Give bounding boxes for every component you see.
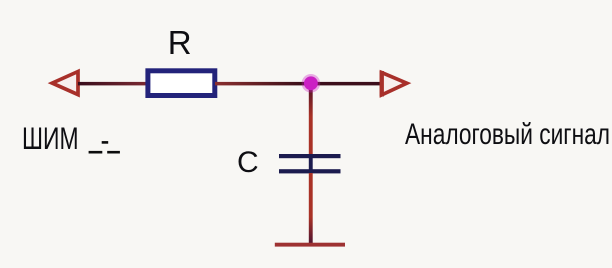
PWM square-wave glyph <box>89 141 120 153</box>
label ШИМ <box>22 120 79 157</box>
wire: capacitor bottom plate to ground <box>309 173 313 244</box>
input arrow (left, open triangle) <box>52 72 78 95</box>
node (junction dot) <box>304 76 318 90</box>
wire: input arrow to resistor R <box>78 82 148 86</box>
label C <box>237 146 259 180</box>
capacitor C bottom plate <box>279 169 341 173</box>
wire: node down to capacitor top plate <box>309 86 313 154</box>
resistor R <box>148 71 215 96</box>
capacitor C top plate <box>279 154 341 158</box>
capacitor C gap wire <box>309 156 313 171</box>
node glow <box>302 74 321 93</box>
label Аналоговый сигнал <box>405 118 610 152</box>
ground bar <box>275 243 345 247</box>
output arrow (right, open triangle) <box>380 71 407 97</box>
wire: node to output arrow <box>311 82 382 86</box>
label R <box>168 24 192 62</box>
wire: resistor to node <box>215 82 311 86</box>
